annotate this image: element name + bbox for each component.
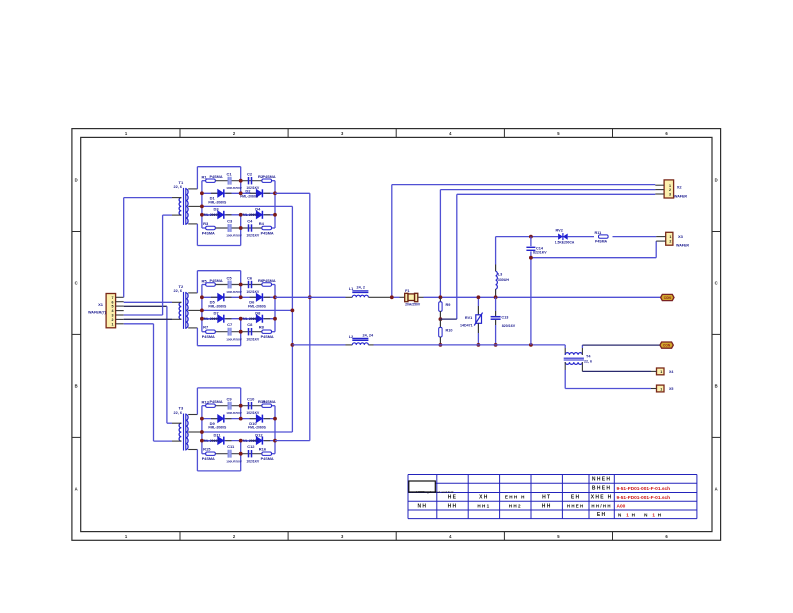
svg-text:X2: X2	[677, 185, 683, 190]
wire diode row 2 bridge 2	[202, 318, 275, 320]
title text page 1 of 1	[618, 513, 662, 518]
svg-text:1: 1	[669, 184, 671, 188]
svg-text:24, 24: 24, 24	[363, 334, 374, 338]
svg-text:C8: C8	[247, 322, 253, 327]
capacitor C5	[226, 275, 243, 294]
wire positive bus vertical	[309, 193, 311, 440]
svg-text:FML-2060S: FML-2060S	[240, 194, 259, 198]
svg-text:NH: NH	[417, 503, 427, 509]
junction dot R9 R10	[439, 317, 443, 321]
svg-text:X5: X5	[669, 387, 673, 391]
capacitor C14 labels	[533, 246, 547, 254]
svg-text:A: A	[75, 486, 78, 491]
svg-text:L3: L3	[498, 272, 502, 276]
svg-text:P4SMA: P4SMA	[263, 279, 276, 283]
title cell check1	[477, 503, 490, 508]
inductor L1	[352, 291, 368, 297]
svg-text:FML-2060S: FML-2060S	[241, 439, 260, 443]
wire right rail bridge 1	[274, 181, 276, 228]
title cell revise	[542, 495, 551, 501]
title cell mark	[448, 495, 458, 501]
junction dot bus2-rail2	[291, 343, 295, 347]
svg-text:102/1KV: 102/1KV	[246, 234, 260, 238]
diode D10	[248, 415, 267, 430]
svg-text:F1: F1	[405, 289, 409, 293]
svg-text:102/1KV: 102/1KV	[246, 337, 260, 341]
svg-text:1.5KE200CA: 1.5KE200CA	[555, 240, 575, 244]
svg-text:D2: D2	[245, 188, 251, 193]
svg-text:4: 4	[112, 309, 114, 313]
resistor R5	[202, 278, 223, 286]
junction dot X3 pin2 net	[529, 256, 533, 260]
wire C14 vertical	[526, 237, 535, 345]
resistor R10	[439, 319, 453, 345]
svg-text:HT: HT	[542, 495, 551, 501]
svg-text:P4SMA: P4SMA	[261, 457, 274, 461]
svg-text:C13: C13	[501, 315, 508, 319]
svg-text:NHEH: NHEH	[592, 477, 611, 483]
capacitor C13	[491, 297, 516, 345]
svg-text:HH2: HH2	[509, 503, 522, 508]
svg-text:T1: T1	[179, 180, 184, 185]
svg-text:C1: C1	[227, 172, 233, 177]
wire rail2	[292, 344, 565, 346]
resistor R16	[259, 447, 274, 462]
diode D3	[202, 207, 224, 219]
wire diode row 1 bridge 3	[202, 418, 275, 420]
svg-text:C6: C6	[247, 275, 253, 280]
svg-text:22, 6: 22, 6	[174, 185, 182, 189]
connector X4	[651, 368, 664, 375]
diode D5	[208, 293, 227, 308]
connector X2	[655, 180, 673, 198]
wire X1 pin3 to T1 primary bottom	[124, 215, 172, 315]
wire bottom row bridge 3	[202, 453, 275, 455]
node rail2 black pin segments	[346, 344, 374, 346]
svg-text:D7: D7	[214, 311, 220, 316]
wire X1 pin7 to T1 primary top	[124, 198, 172, 298]
title cell date	[571, 495, 581, 501]
wire diode row 2 bridge 1	[202, 214, 275, 216]
svg-text:C12: C12	[247, 444, 255, 449]
junction dot bus-rail1	[308, 295, 312, 299]
connector X1 body	[106, 294, 116, 328]
svg-text:C7: C7	[227, 322, 233, 327]
svg-text:1: 1	[660, 387, 662, 391]
svg-text:C4: C4	[247, 218, 253, 223]
svg-text:R9: R9	[446, 303, 451, 307]
resistor R11	[595, 231, 609, 243]
wire T4 to lug2	[582, 345, 659, 355]
svg-text:HH/HH: HH/HH	[591, 503, 611, 508]
connector X1 pin stubs	[116, 297, 124, 324]
svg-text:20A/250V: 20A/250V	[405, 302, 421, 306]
svg-text:P4SMA: P4SMA	[261, 335, 274, 339]
wire bottom row bridge 1	[202, 227, 275, 229]
svg-text:822/1KV: 822/1KV	[533, 251, 547, 255]
svg-text:R8: R8	[259, 325, 265, 330]
svg-text:R3: R3	[203, 221, 209, 226]
capacitor C9	[226, 397, 243, 416]
label T3	[174, 406, 184, 415]
capacitor C4	[246, 218, 260, 237]
label L3	[498, 272, 510, 282]
output lug FASTON 1	[661, 294, 674, 300]
connector X5	[651, 385, 664, 392]
wire center tap row bridge 2	[202, 309, 293, 311]
title cell change-no	[505, 495, 526, 500]
junction dots bridge 2	[200, 283, 277, 334]
title cell approve	[542, 503, 552, 509]
wire top row bridge 3	[202, 405, 275, 407]
svg-text:EHH H: EHH H	[505, 495, 526, 500]
capacitor C12	[246, 444, 260, 463]
title cell file-number	[591, 495, 613, 501]
svg-text:R15: R15	[203, 447, 211, 452]
resistor R6	[258, 278, 276, 286]
title cell draft	[448, 503, 458, 509]
svg-text:P4SMA: P4SMA	[210, 175, 223, 179]
output lug FASTON 2	[660, 342, 673, 348]
svg-text:P4SMA: P4SMA	[202, 335, 215, 339]
wire top row bridge 2	[202, 284, 275, 286]
wire bottom row bridge 2	[202, 331, 275, 333]
title cell version	[591, 503, 611, 508]
label L2	[349, 334, 374, 339]
transformer T3	[172, 414, 202, 451]
svg-text:P4SMA: P4SMA	[202, 231, 215, 235]
svg-text:FML-2060S: FML-2060S	[248, 426, 267, 430]
title block grid	[408, 475, 697, 519]
resistor R3	[202, 221, 216, 236]
svg-text:9-51-FD01-001-F-01.sch: 9-51-FD01-001-F-01.sch	[617, 495, 671, 501]
capacitor C10	[246, 397, 260, 416]
svg-text:RV2: RV2	[556, 229, 563, 233]
svg-text:R5: R5	[202, 278, 208, 283]
wire X3 pin2 net	[531, 241, 656, 258]
capacitor C6	[246, 275, 260, 294]
svg-text:FML-2060S: FML-2060S	[202, 213, 221, 217]
wire bridge3 output to bus	[275, 440, 310, 442]
label T2	[174, 284, 184, 293]
junction dot bus2-bridge2mid	[291, 309, 295, 313]
svg-text:FML-2060S: FML-2060S	[202, 317, 221, 321]
label X1	[98, 302, 104, 307]
capacitor C7	[226, 322, 243, 341]
svg-text:1: 1	[652, 513, 655, 518]
wire T4 to X5	[565, 362, 651, 388]
wire X2 pin1 net	[392, 184, 656, 186]
svg-text:B: B	[75, 383, 78, 388]
svg-text:3: 3	[669, 193, 671, 197]
title cell company-name	[592, 477, 611, 483]
svg-text:100UF/50V: 100UF/50V	[226, 234, 243, 238]
junction dots RV1	[477, 295, 481, 346]
svg-text:1: 1	[112, 322, 114, 326]
wire X2 pin3 net	[457, 193, 656, 195]
sheet border frame with zone labels	[72, 129, 721, 541]
capacitor C1	[226, 172, 243, 191]
svg-text:2: 2	[669, 188, 671, 192]
title cell effective-date	[567, 503, 585, 508]
junction dots bridge 3	[200, 404, 277, 456]
svg-text:FML-2060S: FML-2060S	[241, 213, 260, 217]
svg-text:T2: T2	[179, 284, 184, 289]
svg-text:FML-2060S: FML-2060S	[241, 317, 260, 321]
svg-text:L2: L2	[349, 335, 353, 339]
inductor L3	[496, 271, 498, 297]
svg-text:FML-2060S: FML-2060S	[208, 426, 227, 430]
svg-text:brand.XXKingdomfort and fonl: brand.XXKingdomfort and fonl	[408, 490, 453, 494]
resistor R2	[258, 174, 276, 182]
label X2	[674, 185, 687, 199]
wire diode row 1 bridge 1	[202, 192, 275, 194]
label F1	[405, 289, 421, 306]
svg-text:5: 5	[112, 305, 114, 309]
svg-text:X3: X3	[678, 234, 684, 239]
wire X2 pin2 net	[440, 189, 655, 191]
junction dots bridge 1	[200, 179, 277, 230]
wire left rail bridge 1	[201, 181, 203, 228]
diode D11	[202, 432, 224, 444]
svg-text:R10: R10	[446, 329, 453, 333]
svg-text:R11: R11	[595, 231, 602, 235]
svg-text:HH: HH	[448, 503, 458, 509]
label RV1	[460, 316, 473, 327]
connector X3	[656, 232, 673, 245]
title cell page	[597, 512, 607, 518]
wire AC bottom feed bridge 1	[197, 215, 240, 246]
svg-text:C9: C9	[227, 397, 233, 402]
label T1	[174, 180, 184, 189]
wire X2 line1 vertical	[391, 185, 393, 298]
resistor R15	[202, 447, 216, 462]
label L1	[349, 286, 365, 292]
wire center tap row bridge 3	[202, 431, 293, 433]
wire diode row 2 bridge 3	[202, 440, 275, 442]
label RV2	[555, 229, 575, 245]
wire RV2 net west segment	[495, 237, 497, 272]
svg-text:X1: X1	[98, 302, 104, 307]
svg-text:C5: C5	[227, 275, 233, 280]
svg-text:WAFER: WAFER	[674, 195, 687, 199]
wire AC top feed bridge 1	[197, 167, 240, 194]
wire rail1	[275, 296, 660, 298]
wire top row bridge 1	[202, 180, 275, 182]
label X5	[669, 387, 673, 391]
diode D2	[240, 188, 262, 198]
svg-text:102/1KV: 102/1KV	[246, 459, 260, 463]
transformer T2	[172, 292, 202, 329]
svg-text:P4SMA: P4SMA	[202, 457, 215, 461]
svg-text:100UF/50V: 100UF/50V	[226, 411, 243, 415]
diode D7	[202, 311, 224, 323]
svg-text:XHE H: XHE H	[591, 495, 613, 501]
resistor R13	[202, 400, 223, 408]
svg-text:D4: D4	[255, 207, 261, 212]
svg-text:WAFER: WAFER	[676, 243, 689, 247]
junction dot rail1 x391	[390, 295, 394, 299]
svg-text:100UF/50V: 100UF/50V	[226, 186, 243, 190]
inductor L2	[352, 339, 368, 345]
svg-text:C: C	[75, 281, 78, 286]
title cell check2	[509, 503, 522, 508]
svg-text:D12: D12	[255, 432, 263, 437]
svg-text:C2: C2	[247, 172, 253, 177]
diode D1	[208, 189, 227, 204]
wire X2 line2 vertical	[439, 190, 441, 298]
wire center tap row bridge 1	[202, 205, 293, 207]
junction dot L3 rail1	[494, 295, 498, 299]
wire X1 pin1 to T3 primary bottom	[124, 324, 172, 441]
resistor R9	[439, 297, 451, 319]
label T4	[584, 355, 592, 364]
title text filename row3	[617, 495, 671, 501]
svg-text:T3: T3	[179, 406, 184, 411]
wire X1 pin2 to T2 primary bottom	[124, 318, 172, 320]
wire X2 line3 vertical	[440, 194, 456, 319]
svg-text:EH: EH	[597, 512, 607, 518]
resistor R14	[258, 399, 276, 407]
svg-text:C11: C11	[227, 444, 235, 449]
svg-text:9-51-FD01-001-F-01.sch: 9-51-FD01-001-F-01.sch	[617, 486, 671, 492]
svg-text:100UF/50V: 100UF/50V	[226, 290, 243, 294]
svg-text:FML-2060S: FML-2060S	[208, 200, 227, 204]
svg-text:6: 6	[112, 300, 114, 304]
svg-text:102/1KV: 102/1KV	[246, 290, 260, 294]
svg-text:100UF/50V: 100UF/50V	[226, 337, 243, 341]
svg-text:7: 7	[112, 296, 114, 300]
diode D12	[241, 432, 264, 444]
diode D8	[241, 311, 263, 323]
svg-text:L1: L1	[349, 287, 353, 291]
title block logo box	[409, 481, 436, 492]
wire left rail bridge 2	[201, 285, 203, 332]
svg-text:FML-2060S: FML-2060S	[202, 439, 221, 443]
wire AC bottom feed bridge 2	[197, 319, 240, 346]
wire AC top feed bridge 2	[197, 271, 240, 298]
svg-text:2: 2	[112, 318, 114, 322]
svg-text:R7: R7	[203, 325, 209, 330]
wire AC top feed bridge 3	[197, 388, 240, 419]
capacitor C2	[246, 172, 260, 191]
title cell design	[417, 503, 427, 509]
svg-text:820/16V: 820/16V	[502, 324, 516, 328]
svg-text:WAFER(7): WAFER(7)	[88, 311, 107, 315]
svg-text:R16: R16	[259, 447, 267, 452]
svg-text:B: B	[715, 383, 718, 388]
svg-text:D: D	[715, 178, 718, 183]
svg-text:XH: XH	[479, 495, 489, 501]
svg-text:3: 3	[112, 314, 114, 318]
svg-text:P4SMA: P4SMA	[210, 400, 223, 404]
svg-text:BHEH: BHEH	[592, 486, 611, 492]
resistor R4	[259, 221, 274, 236]
svg-text:C3: C3	[227, 218, 233, 223]
svg-text:330UH: 330UH	[498, 278, 510, 282]
transformer T4	[564, 353, 584, 365]
wire diode row 1 bridge 2	[202, 296, 275, 298]
svg-text:HE: HE	[448, 495, 458, 501]
resistor R8	[259, 325, 274, 340]
label X1 value WAFER(7)	[88, 311, 107, 315]
title text version A00	[617, 504, 626, 510]
title cell drawing-name	[592, 486, 611, 492]
varistor RV1	[474, 297, 482, 345]
resistor R1	[202, 175, 223, 183]
svg-text:D8: D8	[255, 311, 261, 316]
svg-text:22, 6: 22, 6	[174, 289, 182, 293]
label X4	[669, 370, 673, 374]
svg-text:22, 6: 22, 6	[174, 411, 182, 415]
node rail1 black pin segments	[346, 296, 424, 298]
wire RV2 net	[496, 236, 657, 238]
svg-text:100UF/50V: 100UF/50V	[226, 459, 243, 463]
TVS RV2	[558, 233, 568, 240]
svg-text:FML-2060S: FML-2060S	[208, 304, 227, 308]
svg-text:R1: R1	[202, 175, 208, 180]
junction dot RV2 net x530	[529, 235, 533, 239]
diode D9	[208, 415, 227, 430]
wire bridge1 output to bus	[275, 192, 310, 194]
svg-text:1: 1	[669, 235, 671, 239]
wire X1 pin5 to T3 primary top	[124, 306, 172, 423]
svg-text:EH: EH	[571, 495, 581, 501]
wire right rail bridge 3	[274, 406, 276, 454]
svg-text:P4SMA: P4SMA	[263, 400, 276, 404]
svg-text:R13: R13	[202, 400, 210, 405]
wire AC bottom feed bridge 3	[197, 441, 240, 471]
svg-text:A00: A00	[617, 504, 626, 510]
diode D6	[248, 293, 267, 308]
svg-text:P4SMA: P4SMA	[595, 239, 608, 243]
wire right rail bridge 2	[274, 285, 276, 332]
resistor R7	[202, 325, 216, 340]
label X3	[676, 234, 689, 247]
svg-text:2: 2	[669, 240, 671, 244]
svg-text:HH1: HH1	[477, 503, 490, 508]
svg-text:D3: D3	[214, 207, 220, 212]
capacitor C11	[226, 444, 243, 463]
title text filename row2	[617, 486, 671, 492]
capacitor C8	[246, 322, 260, 341]
svg-text:R4: R4	[259, 221, 265, 226]
wire X1 pin6 to T2 primary top	[124, 301, 172, 303]
wire left rail bridge 3	[201, 406, 203, 454]
junction dot rail1 x440	[439, 295, 443, 299]
svg-text:X4: X4	[669, 370, 673, 374]
junction dot rail2 x530	[529, 343, 533, 347]
wire rail2 to T4	[564, 345, 566, 355]
junction dot R10 rail2	[439, 343, 443, 347]
svg-text:A: A	[715, 486, 718, 491]
svg-text:P4SMA: P4SMA	[210, 279, 223, 283]
svg-text:1: 1	[660, 370, 662, 374]
transformer T1	[172, 188, 202, 225]
svg-text:P4SMA: P4SMA	[263, 175, 276, 179]
wire T4 to X4	[582, 362, 651, 371]
svg-text:14D471: 14D471	[460, 323, 473, 327]
diode D4	[241, 207, 263, 219]
svg-text:CON: CON	[663, 344, 671, 348]
svg-text:HHEH: HHEH	[567, 503, 585, 508]
junction dot C13 rail2	[494, 343, 498, 347]
svg-text:P4SMA: P4SMA	[261, 231, 274, 235]
svg-text:HH: HH	[542, 503, 552, 509]
svg-text:D: D	[75, 178, 78, 183]
svg-text:24, 2: 24, 2	[357, 286, 365, 290]
svg-text:1: 1	[626, 513, 629, 518]
